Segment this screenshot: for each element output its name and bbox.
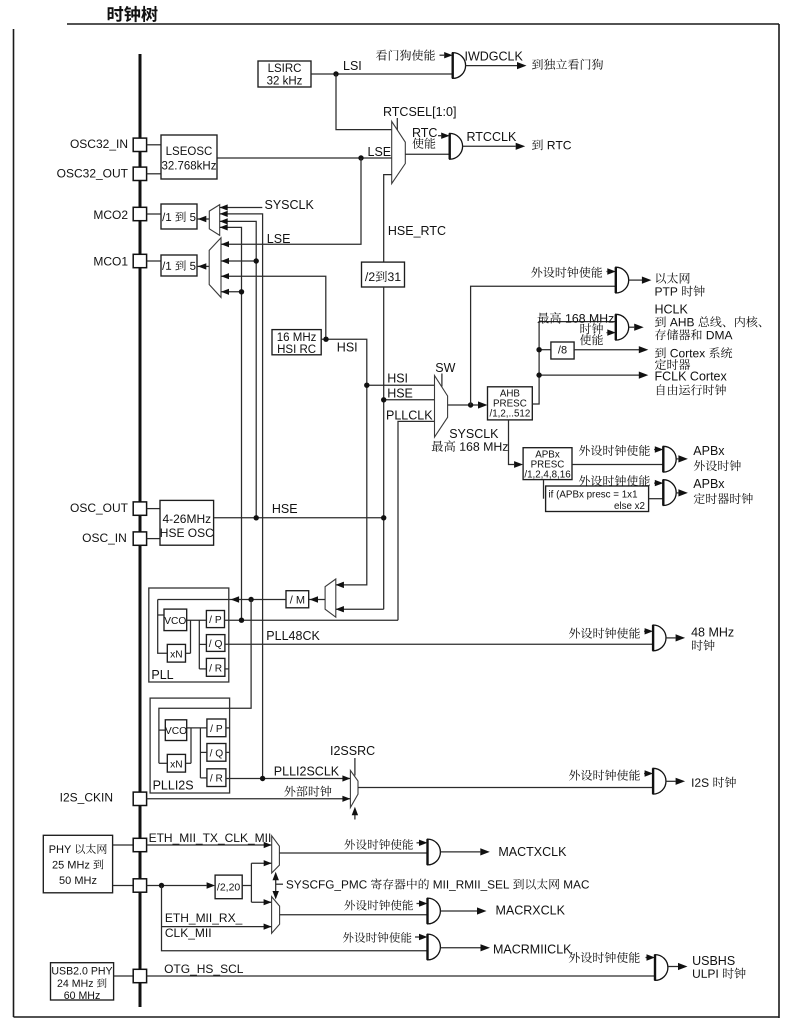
svg-text:HSI RC: HSI RC <box>277 344 316 356</box>
svg-text:APBx: APBx <box>693 477 725 491</box>
divider box /M <box>286 591 309 608</box>
wire HSE_RTC hook into RTC mux input 3 <box>384 175 392 263</box>
label 外设时钟使能 (USBHS) <box>569 952 640 963</box>
pin MCO2 <box>133 207 146 220</box>
PLL outer box <box>149 588 229 682</box>
enable arrow into MACRMII gate <box>415 936 419 938</box>
svg-text:HSE: HSE <box>272 502 298 516</box>
PLLI2S outer box <box>150 698 230 793</box>
wire 48MHz output <box>666 637 676 639</box>
svg-text:48 MHz: 48 MHz <box>691 625 734 639</box>
PLL /P box <box>206 611 224 628</box>
wire PLLCLK to SW mux input 3 <box>398 421 435 620</box>
svg-text:HSE: HSE <box>387 387 413 401</box>
net label 外部时钟 (external clock) <box>284 786 331 797</box>
PLLI2S /Q box <box>207 744 226 762</box>
mux ETH TX clock <box>272 836 280 873</box>
wire MACRMIICLK output <box>440 947 480 949</box>
enable arrow into APBx peripheral gate <box>653 449 656 451</box>
PLLI2S /R box <box>207 769 226 787</box>
pin ETH_MII_TX_CLK_MII <box>113 844 134 846</box>
and-gate APBx timer clock <box>663 480 676 506</box>
and-gate IWDG clock gate <box>453 53 466 79</box>
and-gate Ethernet PTP <box>616 267 629 293</box>
oscillator 16 MHz HSI RC box <box>272 330 321 355</box>
svg-text:else x2: else x2 <box>614 501 645 512</box>
svg-text:FCLK Cortex: FCLK Cortex <box>655 370 728 384</box>
mux PLL source (HSI/HSE) <box>325 579 336 617</box>
wire USBHS ULPI output <box>668 966 678 968</box>
enable arrow into RTC gate <box>438 135 441 137</box>
node HSI junction <box>323 337 328 342</box>
pin MCO1 <box>133 254 146 267</box>
svg-text:SYSCLK: SYSCLK <box>449 427 499 441</box>
wire LSE into RTC mux input 2 (from LSEOSC) <box>217 157 392 159</box>
wire RTCCLK output <box>463 145 516 147</box>
label 时钟使能 (HCLK enable) <box>580 323 603 334</box>
pin OSC32_IN <box>133 138 146 151</box>
svg-text:/ P: / P <box>210 724 223 735</box>
svg-text:OSC_OUT: OSC_OUT <box>70 501 129 515</box>
wire LSE vertical to MCO1 mux input 1 <box>221 158 361 244</box>
prescaler box AHB PRESC <box>488 387 533 420</box>
enable arrow into 48MHz gate <box>643 630 646 632</box>
svg-text:HSE_RTC: HSE_RTC <box>388 224 446 238</box>
oscillator LSIRC box <box>258 61 311 87</box>
svg-text:MCO1: MCO1 <box>93 255 128 269</box>
svg-text:/1,2,4,8,16: /1,2,4,8,16 <box>524 469 571 480</box>
svg-text:LSEOSC: LSEOSC <box>166 146 213 158</box>
svg-text:APBx: APBx <box>693 444 725 458</box>
wire PLL48CK from /Q to 48MHz gate <box>225 643 653 645</box>
label 外设时钟使能 (48MHz) <box>569 628 640 639</box>
svg-text:16 MHz: 16 MHz <box>277 332 317 344</box>
svg-text:LSE: LSE <box>267 232 291 246</box>
node /M output junction <box>248 597 253 602</box>
enable arrow into HCLK gate <box>606 332 609 334</box>
svg-text:HCLK: HCLK <box>655 303 689 317</box>
wire HSE into /M source mux input 2 <box>336 608 384 610</box>
wire HSE vertical (divider to SW and HSE wire) <box>383 287 385 609</box>
svg-text:PLL: PLL <box>151 668 173 682</box>
wire AHB prescaler down to APBx prescaler <box>509 420 515 465</box>
mux MCO2 source <box>209 205 219 236</box>
pin ETH_MII_RX_CLK_MII <box>113 885 134 887</box>
svg-text:MACRMIICLK: MACRMIICLK <box>493 943 572 957</box>
wire TX mux output to MACTX gate <box>279 852 427 854</box>
label 到 RTC (to RTC) <box>532 139 571 150</box>
and-gate HCLK <box>616 314 629 340</box>
wire LSI from LSIRC to IWDG gate <box>311 73 453 75</box>
svg-text:/2,20: /2,20 <box>217 882 241 894</box>
wire OTG_HS ULPI clock to USB gate <box>147 975 655 977</box>
PLLI2S internal wiring <box>159 729 165 731</box>
pin OSC_OUT <box>133 502 146 515</box>
label 最高 168 MHz (HCLK) <box>538 312 614 323</box>
svg-text:ETH_MII_TX_CLK_MII: ETH_MII_TX_CLK_MII <box>149 831 272 845</box>
svg-text:VCO: VCO <box>164 616 186 627</box>
and-gate MACRXCLK <box>428 898 441 924</box>
svg-text:PLL48CK: PLL48CK <box>266 629 320 643</box>
wire PLLCLK from /P to SW <box>225 619 399 621</box>
pin OTG_HS <box>114 975 134 977</box>
label 以太网 PTP 时钟 <box>656 273 690 284</box>
svg-text:ETH_MII_RX_: ETH_MII_RX_ <box>165 911 243 925</box>
svg-text:MACTXCLK: MACTXCLK <box>498 845 567 859</box>
divider box /2,20 <box>215 875 242 899</box>
RTCSEL select tick <box>396 118 398 131</box>
MII_RMII_SEL select arrows <box>275 874 277 898</box>
enable arrow into MACTX gate <box>417 842 420 844</box>
svg-text:32.768kHz: 32.768kHz <box>162 161 217 173</box>
enable arrow into PTP gate <box>606 271 609 273</box>
label 外设时钟使能 (MACRMII) <box>343 932 411 943</box>
enable arrow into MACRX gate <box>417 903 420 905</box>
wire PTP output <box>629 279 642 281</box>
page frame right border <box>778 24 780 1018</box>
and-gate 48 MHz clock <box>653 625 666 651</box>
wire FCLK output <box>539 374 639 376</box>
svg-text:OTG_HS_SCL: OTG_HS_SCL <box>164 962 244 976</box>
svg-text:MCO2: MCO2 <box>93 208 128 222</box>
svg-text:LSIRC: LSIRC <box>268 63 302 75</box>
svg-text:xN: xN <box>170 759 182 770</box>
svg-text:I2SSRC: I2SSRC <box>330 744 375 758</box>
svg-text:60 MHz: 60 MHz <box>64 990 101 1002</box>
svg-text:USB2.0 PHY: USB2.0 PHY <box>51 966 112 978</box>
wire PLL branch into MCO1 mux input 4 <box>221 291 242 293</box>
oscillator 4-26MHz HSE OSC box <box>147 508 160 510</box>
wire SYSCLK vertical up to PTP gate <box>471 286 616 405</box>
svg-text:/ R: / R <box>209 663 222 674</box>
svg-text:IWDGCLK: IWDGCLK <box>465 50 524 64</box>
and-gate I2S clock <box>653 768 666 794</box>
PLL /R stub <box>225 668 229 670</box>
node ETH RX junction <box>159 883 164 888</box>
svg-text:/ Q: / Q <box>209 639 223 650</box>
wire HCLK output <box>629 326 635 328</box>
and-gate RTC clock gate <box>450 133 463 159</box>
svg-text:/ P: / P <box>209 615 222 626</box>
divider box /1 到 5 (MCO1) <box>147 260 161 262</box>
wire APBx timer clock output <box>676 492 678 494</box>
PLL xN box <box>167 644 185 662</box>
PLLI2S /P /Q stubs <box>226 727 230 729</box>
wire MCO1 mux output into divider <box>197 265 209 267</box>
wire PLLI2S vertical into MCO2 mux input 2 <box>220 214 263 779</box>
wire PLL vertical into MCO2 mux input 4 <box>220 227 242 620</box>
wire LSI branch to RTC mux input 1 <box>336 74 392 130</box>
title 时钟树 <box>108 6 158 22</box>
wire ETH RX clock to /2,20 divider <box>147 885 207 887</box>
svg-text:32 kHz: 32 kHz <box>267 76 303 88</box>
mux SW system clock switch <box>435 376 448 438</box>
mux I2S clock source <box>350 770 358 807</box>
I2SSRC select tick <box>354 758 356 776</box>
label 到独立看门狗 (to independent watchdog) <box>532 59 603 70</box>
wire HSE vertical into MCO2 mux input 3 <box>220 221 257 517</box>
arrows into MCO1 mux inputs <box>221 241 229 247</box>
PLL internal wiring <box>158 600 168 654</box>
svg-text:/1,2,..512: /1,2,..512 <box>489 409 530 420</box>
svg-text:MACRXCLK: MACRXCLK <box>496 904 566 918</box>
svg-text:OSC_IN: OSC_IN <box>82 531 127 545</box>
wire RX mux output to MACRX gate <box>280 914 428 916</box>
and-gate APBx peripheral clock <box>663 446 676 472</box>
enable arrow into IWDG gate <box>440 54 445 56</box>
svg-text:RTC: RTC <box>412 126 437 140</box>
svg-text:PLLI2SCLK: PLLI2SCLK <box>274 765 340 779</box>
page frame bottom border <box>14 1016 780 1018</box>
label SYSCFG_PMC 寄存器中的 MII_RMII_SEL 到以太网 MAC <box>286 878 589 890</box>
label 外设时钟使能 (MACRX) <box>344 900 412 911</box>
enable arrow into APBx timer gate <box>653 482 656 484</box>
wire APBx output to peripheral gate <box>572 464 663 466</box>
pin OSC32_OUT <box>133 167 146 180</box>
wire mux output to /M divider <box>309 599 325 601</box>
svg-text:LSE: LSE <box>368 145 392 159</box>
pin OSC_IN <box>133 532 146 545</box>
box USB2.0 PHY 24 MHz 到 60 MHz <box>51 963 114 1000</box>
wire /2,20 output bracket to both muxes <box>242 885 251 887</box>
divider box /2到31 <box>362 262 405 287</box>
svg-text:CLK_MII: CLK_MII <box>165 926 212 940</box>
wire HSI to SW mux input 1 <box>367 384 435 386</box>
svg-text:RTCSEL[1:0]: RTCSEL[1:0] <box>383 105 456 119</box>
wire HSI branch into MCO1 mux input 3 <box>221 276 326 339</box>
box PHY 以太网 25 MHz 到 50 MHz <box>43 835 112 893</box>
PLLI2S xN box <box>167 754 185 772</box>
wire HSE branch into MCO1 mux input 2 <box>221 260 256 262</box>
wire external I2S clock <box>147 798 351 800</box>
chip boundary line <box>139 54 142 1007</box>
wire AHB output up <box>532 322 616 404</box>
label 外设时钟使能 (PTP) <box>531 267 602 278</box>
I2S mux lower select arrow <box>354 811 356 820</box>
mux ETH RX clock <box>272 897 280 934</box>
divider box /8 <box>539 349 551 351</box>
svg-text:SYSCLK: SYSCLK <box>265 198 315 212</box>
wire MACTXCLK output <box>440 851 480 853</box>
label 外设时钟使能 (MACTX) <box>344 839 412 850</box>
label 外设时钟使能 (I2S) <box>569 770 640 781</box>
svg-text:HSI: HSI <box>387 372 408 386</box>
label 看门狗使能 (watchdog enable) <box>376 50 435 61</box>
wire HSE from oscillator <box>214 517 384 519</box>
oscillator LSEOSC box <box>147 144 161 146</box>
prescaler box APBx PRESC <box>523 448 572 480</box>
svg-text:50 MHz: 50 MHz <box>59 875 97 887</box>
svg-text:/ Q: / Q <box>210 748 224 759</box>
page frame left border <box>13 29 15 1017</box>
wire /M output into PLL and PLLI2S <box>158 599 286 601</box>
divider box /1 到 5 (MCO2) <box>147 213 161 215</box>
enable arrow into I2S gate <box>643 773 646 775</box>
wire IWDGCLK output <box>466 65 517 67</box>
wire APBx presc down into if box <box>543 480 545 499</box>
wire MACRXCLK output <box>440 910 477 912</box>
wire PLLI2SCLK from /R to I2S mux <box>226 778 351 780</box>
mux RTC clock source <box>392 121 406 183</box>
svg-text:HSI: HSI <box>337 341 358 355</box>
wire if box output to timer gate <box>649 498 664 500</box>
PLL VCO box <box>164 609 187 631</box>
svg-text:if (APBx presc = 1x1: if (APBx presc = 1x1 <box>549 490 638 501</box>
svg-text:PLLI2S: PLLI2S <box>153 779 194 793</box>
pin I2S_CKIN <box>133 792 146 805</box>
node LSI junction <box>333 71 338 76</box>
svg-text:RTCCLK: RTCCLK <box>467 130 517 144</box>
mux MCO1 source <box>209 238 221 298</box>
wire SYSCLK stub into MCO2 mux input 1 <box>220 207 263 209</box>
PLL /R box <box>206 658 225 676</box>
label 最高 168 MHz (SYSCLK max) <box>432 440 508 451</box>
svg-text:OSC32_IN: OSC32_IN <box>70 137 128 151</box>
node LSE junction <box>358 155 363 160</box>
svg-text:OSC32_OUT: OSC32_OUT <box>57 167 129 181</box>
PLL /Q box <box>206 635 225 652</box>
svg-text:USBHS: USBHS <box>692 954 735 968</box>
svg-text:/ M: / M <box>290 595 305 607</box>
svg-text:/ R: / R <box>210 774 223 785</box>
page frame top border / title underline <box>67 23 779 25</box>
condition box if (APBx presc = 1x1 else x2 <box>546 486 649 512</box>
svg-text:/8: /8 <box>558 345 567 357</box>
wire HSI output <box>321 339 367 585</box>
PLLI2S /P box <box>207 719 226 737</box>
node SYSCLK junction <box>468 402 473 407</box>
enable arrow into USB gate <box>646 957 647 959</box>
wire I2S clock output <box>666 780 676 782</box>
wire /M output down into PLLI2S <box>159 600 251 764</box>
node HSE junctions <box>254 515 259 520</box>
label 外设时钟使能 (APBx) <box>579 445 650 456</box>
svg-text:LSI: LSI <box>343 59 362 73</box>
wire ETH RX down to RX mux input 2 and RMII gate <box>162 886 428 951</box>
and-gate MACRMIICLK <box>428 934 441 960</box>
and-gate USBHS ULPI <box>655 955 668 981</box>
wire SYSCLK from SW mux to AHB prescaler <box>448 404 478 406</box>
wire I2S mux output to I2S gate <box>358 787 653 789</box>
PLLI2S VCO box <box>165 720 186 741</box>
svg-text:4-26MHz: 4-26MHz <box>162 512 211 526</box>
SW select tick <box>441 374 443 387</box>
svg-text:PLLCLK: PLLCLK <box>386 409 433 423</box>
svg-text:I2S_CKIN: I2S_CKIN <box>60 791 113 805</box>
and-gate MACTXCLK <box>428 839 441 865</box>
svg-text:HSE OSC: HSE OSC <box>160 526 214 540</box>
wire HSE to SW mux input 2 <box>384 399 435 401</box>
wire /8 output to Cortex system timer <box>574 349 639 351</box>
label 外设时钟使能 (APBx timer) <box>579 475 650 486</box>
svg-text:xN: xN <box>170 649 182 660</box>
wire MCO2 mux output into divider <box>197 218 209 220</box>
svg-text:VCO: VCO <box>165 726 187 737</box>
wire ETH TX clock into TX mux input 1 <box>147 844 272 846</box>
wire RTC mux output to RTC gate <box>405 153 449 155</box>
wire APBx peripheral clock output <box>676 458 678 460</box>
svg-text:SW: SW <box>435 361 455 375</box>
